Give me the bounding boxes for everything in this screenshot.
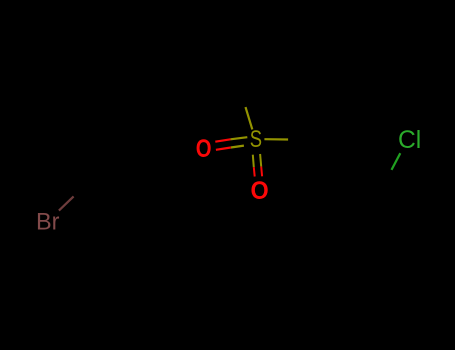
wire: S=O bottom double bond, right line, O half (red) (260, 167, 263, 177)
wire: C-Br bond half (Br colored) (59, 196, 74, 210)
svg-text:Br: Br (36, 209, 60, 236)
svg-text:Cl: Cl (398, 127, 421, 154)
svg-text:O: O (196, 135, 212, 163)
wire: S=O left double bond, upper line, S half (olive) (231, 137, 248, 139)
svg-text:O: O (251, 177, 269, 205)
wire: S=O bottom double bond, left line, O half (red) (253, 167, 256, 176)
wire: S-CH2 bond half (olive), horizontal to right (264, 138, 288, 141)
wire: S-CH3 bond half (olive), methyl up from S (246, 107, 253, 129)
wire: C-Cl bond half (Cl green) (392, 153, 401, 170)
wire: S=O left double bond, lower line, S half (olive) (231, 146, 244, 148)
wire: S=O bottom double bond, right line, S half (olive) (260, 154, 261, 167)
wire: S=O left double bond, lower line, O half (red) (216, 148, 231, 150)
svg-text:S: S (250, 127, 262, 153)
wire: S=O left double bond, upper line, O half (red) (215, 139, 230, 141)
wire: S=O bottom double bond, left line, S half (olive) (253, 155, 254, 168)
